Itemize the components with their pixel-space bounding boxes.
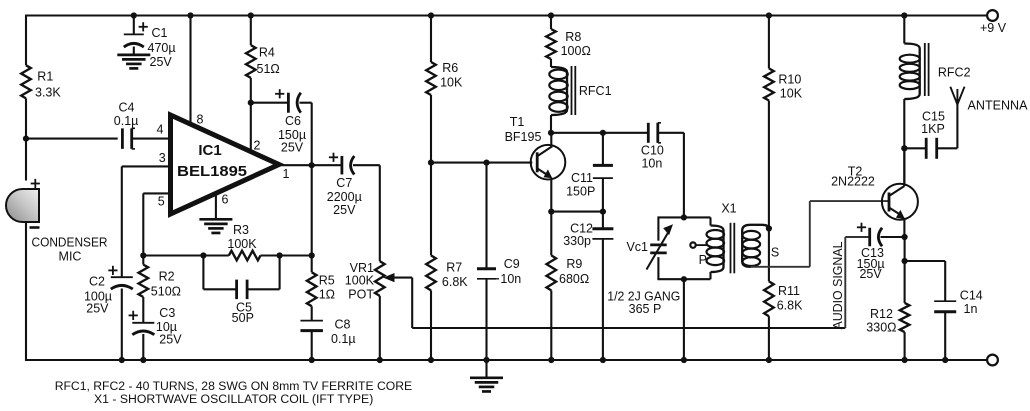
svg-text:MIC: MIC xyxy=(59,250,82,264)
wire node to C4 xyxy=(26,138,118,140)
junction T2 emitter node xyxy=(902,234,908,240)
wire mic to bottom rail xyxy=(25,222,27,361)
wire pin3 down to C2 xyxy=(121,166,123,277)
wire node to C12 xyxy=(602,212,604,228)
wire T1 base line xyxy=(431,162,532,164)
wire C4 to pin4 xyxy=(132,138,171,140)
svg-text:0.1µ: 0.1µ xyxy=(331,332,356,346)
wire base node to R7 xyxy=(430,163,432,256)
svg-text:3.3K: 3.3K xyxy=(35,86,61,100)
label C8 xyxy=(331,318,356,347)
svg-text:C2: C2 xyxy=(89,275,105,289)
wire C8 to bottom rail xyxy=(311,330,313,361)
junction top rail at RFC2 xyxy=(901,12,907,18)
svg-text:25V: 25V xyxy=(281,141,304,155)
label pin 3 xyxy=(159,151,166,165)
svg-text:R3: R3 xyxy=(233,223,249,237)
pin 6 wire xyxy=(215,194,217,220)
svg-text:25V: 25V xyxy=(859,267,882,281)
capacitor C10 xyxy=(648,123,661,143)
label pin 6 xyxy=(222,193,229,207)
svg-text:R11: R11 xyxy=(778,284,800,298)
resistor R8 xyxy=(546,29,556,59)
wire R3 right xyxy=(261,254,312,256)
label R10 xyxy=(778,72,802,100)
wire C14 to bottom rail xyxy=(944,311,946,361)
svg-text:6: 6 xyxy=(222,193,229,207)
label C1 xyxy=(148,26,176,69)
svg-text:6.8K: 6.8K xyxy=(442,275,468,289)
wire audio line xyxy=(412,327,845,329)
svg-text:680Ω: 680Ω xyxy=(559,272,589,286)
wire collector node to C10 xyxy=(551,132,648,134)
junction C8 bottom xyxy=(309,357,315,363)
junction C12 bottom xyxy=(600,357,606,363)
wire rail to R8 xyxy=(550,16,552,30)
capacitor C11 xyxy=(593,165,613,178)
svg-text:8: 8 xyxy=(197,113,204,127)
wire R1 to mic node xyxy=(25,98,27,180)
label R11 xyxy=(777,284,803,312)
svg-text:R6: R6 xyxy=(442,61,458,75)
svg-text:100K: 100K xyxy=(345,273,375,287)
label R4 xyxy=(257,46,280,76)
wire rail to R6 xyxy=(430,16,432,63)
junction base node R6/R7 xyxy=(428,160,434,166)
wire VR1 to bottom rail xyxy=(379,296,381,361)
wire S to T2 base xyxy=(751,201,889,267)
pin 2 wire xyxy=(250,103,252,154)
svg-text:IC1: IC1 xyxy=(198,142,221,159)
svg-text:51Ω: 51Ω xyxy=(257,62,280,76)
svg-text:S: S xyxy=(771,246,779,260)
junction node R1/C4 xyxy=(23,136,29,142)
svg-text:Vc1: Vc1 xyxy=(626,240,648,254)
junction R12/C14 node xyxy=(902,258,908,264)
wire node to R12 xyxy=(904,261,906,303)
svg-text:R4: R4 xyxy=(259,46,275,60)
svg-text:BF195: BF195 xyxy=(505,130,542,144)
svg-text:10K: 10K xyxy=(780,86,803,100)
wire C15 to antenna xyxy=(937,104,958,149)
VR1 wiper arrow xyxy=(383,273,412,282)
svg-text:R12: R12 xyxy=(870,307,893,321)
junction C14 bottom xyxy=(942,357,948,363)
plus sign C7 xyxy=(329,153,338,162)
junction tank top xyxy=(681,214,687,220)
svg-text:330p: 330p xyxy=(563,234,591,248)
svg-text:C11: C11 xyxy=(571,171,593,185)
transformer X1 secondary xyxy=(742,225,769,267)
svg-text:100K: 100K xyxy=(227,237,257,251)
label R1 xyxy=(35,70,61,100)
antenna xyxy=(950,87,964,105)
svg-text:6.8K: 6.8K xyxy=(777,298,803,312)
plus sign C13 xyxy=(857,223,866,232)
pin 3 wire xyxy=(122,165,171,167)
wire tank box bottom edge xyxy=(657,278,710,280)
label AUDIO SIGNAL xyxy=(830,242,845,330)
svg-text:C3: C3 xyxy=(159,306,175,320)
label T2 xyxy=(831,164,875,188)
svg-text:25V: 25V xyxy=(159,333,182,347)
wire R11 to bottom rail xyxy=(768,316,770,361)
svg-text:R10: R10 xyxy=(778,72,801,86)
svg-text:R1: R1 xyxy=(37,70,53,84)
wire tank box top edge xyxy=(657,216,710,218)
svg-text:R8: R8 xyxy=(565,30,581,44)
svg-text:1Ω: 1Ω xyxy=(319,287,335,301)
wire C9 down xyxy=(485,163,487,269)
svg-text:C8: C8 xyxy=(335,318,351,332)
junction node R4/C6/pin2 xyxy=(248,100,254,106)
wire emitter to C11 column xyxy=(551,211,603,213)
svg-text:10n: 10n xyxy=(500,272,521,286)
svg-text:R7: R7 xyxy=(446,260,462,274)
resistor R10 xyxy=(764,68,774,100)
wire bottom ground rail xyxy=(26,359,988,361)
wire audio to C13 xyxy=(845,237,869,328)
wire C13 to emitter xyxy=(881,236,905,238)
junction T2 collector node xyxy=(901,145,907,151)
label BEL1895 xyxy=(177,163,247,180)
wire rail to RFC2 xyxy=(903,16,905,44)
wire node to C14 xyxy=(905,261,946,301)
wire emitter node to R9 xyxy=(550,212,552,256)
wire R8 to RFC1 xyxy=(550,59,552,67)
wire C9 ground stem xyxy=(485,360,487,378)
potentiometer VR1 xyxy=(375,261,385,296)
label CONDENSER MIC xyxy=(32,236,108,264)
label RFC2 xyxy=(938,66,971,80)
svg-text:RFC2: RFC2 xyxy=(938,66,971,80)
wire rail to R4 xyxy=(250,16,252,46)
label R2 xyxy=(151,270,181,299)
resistor R1 xyxy=(21,65,31,98)
resistor R2 xyxy=(139,265,149,297)
label C13 xyxy=(857,246,885,281)
label pin 1 xyxy=(283,167,290,181)
label R3 xyxy=(227,223,257,251)
label C11 xyxy=(566,171,595,199)
junction top rail at R8 xyxy=(548,12,554,18)
ground below C1 xyxy=(117,55,150,69)
resistor R4 xyxy=(246,45,256,78)
label pin 5 xyxy=(158,194,165,208)
pin 8 wire xyxy=(189,16,191,126)
wire R10 to secondary node xyxy=(768,101,770,229)
wire C5 right stub xyxy=(247,256,280,290)
svg-text:330Ω: 330Ω xyxy=(866,320,896,334)
svg-text:ANTENNA: ANTENNA xyxy=(968,98,1029,112)
resistor R6 xyxy=(426,62,436,95)
junction top rail at R6 xyxy=(428,12,434,18)
capacitor C3 xyxy=(132,323,154,335)
caption line 1 xyxy=(55,379,413,393)
label pin 4 xyxy=(157,122,164,136)
junction C11 bottom node xyxy=(600,209,606,215)
svg-text:R5: R5 xyxy=(319,273,335,287)
junction C15 node xyxy=(901,145,907,151)
label IC1 xyxy=(198,142,221,159)
junction C9 top xyxy=(483,160,489,166)
capacitor C12 xyxy=(592,229,613,239)
junction tank bottom xyxy=(681,276,687,282)
svg-text:2200µ: 2200µ xyxy=(327,190,362,204)
junction T1 emitter node xyxy=(548,209,554,215)
svg-text:POT: POT xyxy=(348,288,374,302)
junction C5 left stub xyxy=(200,252,206,258)
svg-text:25V: 25V xyxy=(86,302,109,316)
wire R7 to bottom rail xyxy=(430,290,432,361)
svg-text:R2: R2 xyxy=(159,270,175,284)
svg-text:150P: 150P xyxy=(566,184,595,198)
label C4 xyxy=(114,100,139,128)
wire tank box left upper xyxy=(657,217,659,240)
junction R3 right node xyxy=(309,252,315,258)
svg-text:C14: C14 xyxy=(960,289,983,303)
wire box to primary top xyxy=(709,217,711,225)
label R12 xyxy=(866,307,896,334)
svg-text:2N2222: 2N2222 xyxy=(831,175,875,189)
svg-text:T1: T1 xyxy=(510,115,525,129)
terminal bottom right xyxy=(987,355,998,366)
label C14 xyxy=(960,289,983,316)
ground below pin 6 xyxy=(199,219,232,233)
wire secondary node to R11 xyxy=(768,229,770,282)
label 1/2 2J GANG xyxy=(607,290,680,304)
capacitor C8 xyxy=(300,321,323,331)
pin 5 wire xyxy=(143,192,170,194)
capacitor C5 xyxy=(237,280,248,300)
wire tank to bottom rail xyxy=(683,279,685,361)
svg-text:+9 V: +9 V xyxy=(980,21,1007,35)
label R8 xyxy=(561,30,591,58)
junction top rail at R10 xyxy=(766,12,772,18)
wire C15 node to C15 xyxy=(904,147,926,149)
junction tank bottom rail xyxy=(681,357,687,363)
wire C7 to VR1 xyxy=(353,165,380,261)
capacitor C15 xyxy=(926,138,937,159)
wire R6 to base node xyxy=(430,95,432,164)
condenser mic xyxy=(6,189,39,222)
ground below bottom rail xyxy=(470,378,503,392)
junction C2 bottom xyxy=(119,357,125,363)
svg-text:10n: 10n xyxy=(641,157,662,171)
wire pin5 down to node xyxy=(142,193,144,264)
junction C9 bottom xyxy=(483,357,489,363)
svg-text:AUDIO SIGNAL: AUDIO SIGNAL xyxy=(830,242,845,330)
caption line 2 xyxy=(94,392,373,406)
label P xyxy=(699,253,707,267)
junction C3 bottom xyxy=(140,357,146,363)
svg-text:1n: 1n xyxy=(964,302,978,316)
label X1 xyxy=(721,202,736,216)
label RFC1 xyxy=(579,84,612,98)
op-amp IC1 triangle xyxy=(171,115,280,214)
svg-text:50P: 50P xyxy=(232,311,254,325)
label C7 xyxy=(327,176,362,217)
label C5 xyxy=(232,300,254,325)
wire rail to C1 xyxy=(133,16,135,35)
inductor RFC2 xyxy=(900,44,920,100)
capacitor C1 xyxy=(124,34,144,47)
junction output/C6 xyxy=(309,162,315,168)
svg-text:C1: C1 xyxy=(152,26,168,40)
junction R7 bottom xyxy=(428,357,434,363)
junction VR1 bottom xyxy=(377,357,383,363)
plus sign C1 xyxy=(139,22,148,31)
wire wiper down xyxy=(411,278,413,328)
label 365 P xyxy=(629,302,662,316)
label Vc1 xyxy=(626,240,648,254)
transistor T2 xyxy=(882,148,918,238)
svg-text:RFC1, RFC2 - 40 TURNS, 28 SWG: RFC1, RFC2 - 40 TURNS, 28 SWG ON 8mm TV … xyxy=(55,379,413,393)
wire emitter node down xyxy=(904,237,906,262)
junction R12 bottom xyxy=(902,357,908,363)
capacitor C4 xyxy=(122,128,135,149)
wire R2 to C3 xyxy=(142,297,144,323)
label ANTENNA xyxy=(968,98,1029,112)
label C15 xyxy=(921,109,945,135)
svg-text:510Ω: 510Ω xyxy=(151,284,181,298)
svg-text:X1 - SHORTWAVE OSCILLATOR COIL: X1 - SHORTWAVE OSCILLATOR COIL (IFT TYPE… xyxy=(94,392,373,406)
svg-text:C9: C9 xyxy=(504,257,520,271)
capacitor C6 xyxy=(288,93,300,113)
svg-text:X1: X1 xyxy=(721,202,736,216)
junction C5 right stub xyxy=(277,252,283,258)
wire C6 to output node xyxy=(300,103,312,166)
capacitor C9 xyxy=(477,269,499,279)
junction R3 left node xyxy=(140,252,146,258)
transformer X1 primary xyxy=(707,226,725,273)
wire C1 to ground xyxy=(133,47,135,56)
wire node to C11 xyxy=(602,133,604,165)
svg-text:R9: R9 xyxy=(566,257,582,271)
wire R12 to bottom rail xyxy=(904,332,906,361)
wire C10 to tank xyxy=(658,133,684,219)
svg-text:BEL1895: BEL1895 xyxy=(177,163,247,180)
label R5 xyxy=(319,273,335,301)
core RFC1 xyxy=(572,66,576,115)
label R7 xyxy=(442,260,468,289)
svg-text:C7: C7 xyxy=(336,176,352,190)
svg-text:25V: 25V xyxy=(333,203,356,217)
svg-text:100Ω: 100Ω xyxy=(561,44,591,58)
capacitor C2 xyxy=(111,277,133,289)
wire C2 to bottom rail xyxy=(121,289,123,362)
variable capacitor Vc1 xyxy=(647,224,674,269)
wire RFC1 to collector node xyxy=(550,115,552,134)
wire output node down xyxy=(311,165,313,272)
svg-text:3: 3 xyxy=(159,151,166,165)
wire RFC2 to C15 node xyxy=(903,99,905,149)
wire T2 collector column xyxy=(903,148,905,185)
junction secondary top xyxy=(766,225,772,231)
label VR1 xyxy=(345,261,375,302)
junction top rail at C1 xyxy=(131,12,137,18)
svg-text:RFC1: RFC1 xyxy=(579,84,612,98)
svg-text:470µ: 470µ xyxy=(148,41,176,55)
wire R3 left xyxy=(143,254,229,256)
wire C11 to emitter node xyxy=(602,178,604,212)
plus sign C3 xyxy=(129,311,138,320)
capacitor C7 xyxy=(342,156,354,175)
label pin 8 xyxy=(197,113,204,127)
junction top rail at pin8 xyxy=(187,12,193,18)
wire C5 left stub xyxy=(203,256,236,290)
wire top +9V supply rail xyxy=(26,14,988,16)
wire R9 to bottom rail xyxy=(550,290,552,361)
svg-text:1KP: 1KP xyxy=(921,122,945,136)
core X1 xyxy=(731,223,735,273)
svg-text:C6: C6 xyxy=(285,114,301,128)
wire C3 to bottom rail xyxy=(142,334,144,361)
core RFC2 xyxy=(925,43,929,96)
wire rail to R10 xyxy=(768,16,770,69)
plus sign C6 xyxy=(275,89,284,98)
label C12 xyxy=(563,221,593,248)
label S xyxy=(771,246,779,260)
terminal P tap xyxy=(690,242,695,247)
node top-left corner xyxy=(25,15,27,66)
junction top rail at R4 xyxy=(248,12,254,18)
wire C9 to bottom rail xyxy=(485,279,487,361)
junction R11 bottom xyxy=(766,357,772,363)
resistor R11 xyxy=(764,281,774,316)
svg-text:365 P: 365 P xyxy=(629,302,662,316)
label C10 xyxy=(641,144,664,171)
junction C11 top xyxy=(600,130,606,136)
label +9V xyxy=(980,21,1007,35)
label T1 xyxy=(505,115,542,144)
label pin 2 xyxy=(254,139,261,153)
wire primary bottom to box xyxy=(709,272,711,279)
transistor T1 xyxy=(531,133,566,213)
label C6 xyxy=(278,114,306,155)
resistor R3 xyxy=(229,251,261,261)
pin 1 output wire xyxy=(278,164,342,166)
terminal +9V xyxy=(987,10,998,21)
svg-text:10K: 10K xyxy=(440,76,463,90)
mic minus sign xyxy=(30,226,40,229)
plus sign C2 xyxy=(108,266,117,275)
label C9 xyxy=(500,257,521,286)
resistor R7 xyxy=(426,255,436,290)
svg-text:2: 2 xyxy=(254,139,261,153)
label C3 xyxy=(156,306,182,347)
mic plus sign xyxy=(31,179,40,188)
svg-text:P: P xyxy=(699,253,707,267)
label R6 xyxy=(440,61,463,90)
svg-text:CONDENSER: CONDENSER xyxy=(32,236,108,250)
svg-text:1: 1 xyxy=(283,167,290,181)
resistor R12 xyxy=(900,303,910,332)
capacitor C13 xyxy=(870,228,882,247)
resistor R5 xyxy=(307,272,317,306)
wire R5 to C8 xyxy=(311,306,313,320)
junction R9 bottom xyxy=(548,357,554,363)
svg-text:4: 4 xyxy=(157,122,164,136)
svg-text:0.1µ: 0.1µ xyxy=(114,114,139,128)
svg-text:C4: C4 xyxy=(119,100,135,114)
wire C12 to bottom rail xyxy=(602,239,604,361)
capacitor C14 xyxy=(934,301,956,312)
wire tank box left lower xyxy=(657,257,659,279)
wire R4 to node xyxy=(250,78,252,104)
inductor RFC1 xyxy=(549,67,567,115)
svg-text:5: 5 xyxy=(158,194,165,208)
